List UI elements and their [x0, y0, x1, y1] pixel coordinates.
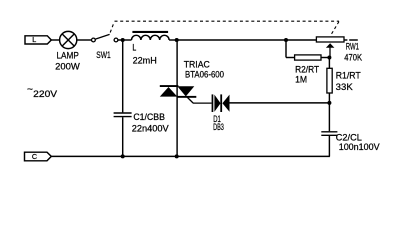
- wire R2 right to junction: [321, 57, 329, 59]
- label C2/CL 100n100V: [336, 133, 381, 153]
- capacitor C2/CL 100n100V: [321, 132, 337, 136]
- resistor R2/RT 1M: [295, 55, 321, 60]
- svg-text:LAMP: LAMP: [57, 51, 79, 62]
- label TRIAC BTA06-600: [184, 59, 224, 80]
- switch SW1: [92, 34, 118, 41]
- wire R2 branch vertical: [285, 40, 287, 58]
- label D1 DB3: [213, 114, 224, 133]
- junction node diac R1 C2: [327, 101, 331, 105]
- svg-text:1M: 1M: [295, 74, 307, 85]
- svg-text:200W: 200W: [55, 62, 80, 73]
- svg-text:BTA06-600: BTA06-600: [185, 70, 224, 81]
- wire pot right stub: [344, 39, 358, 41]
- terminal flag C: [25, 152, 52, 161]
- svg-text:C1/CBB: C1/CBB: [133, 112, 165, 123]
- potentiometer RW1 470K: [316, 37, 344, 58]
- wire junction to C2: [328, 103, 330, 131]
- wire C1 top: [122, 40, 124, 112]
- label LAMP 200W: [55, 51, 80, 73]
- svg-text:33K: 33K: [336, 82, 354, 93]
- wire R1 bottom to junction: [328, 93, 330, 103]
- svg-text:L: L: [132, 42, 136, 53]
- junction node R2 tap: [284, 38, 288, 42]
- bottom wire: [51, 155, 330, 157]
- svg-text:DB3: DB3: [213, 122, 224, 133]
- wire diac to junction: [229, 102, 329, 104]
- lamp 200W: [60, 31, 77, 48]
- svg-text:RW1: RW1: [346, 42, 359, 53]
- svg-text:470K: 470K: [344, 53, 362, 64]
- svg-text:R1/RT: R1/RT: [336, 70, 361, 81]
- wire wiper junction to R1: [328, 58, 330, 69]
- svg-text:L: L: [32, 35, 36, 44]
- junction node C1 bottom: [121, 154, 125, 158]
- svg-text:C: C: [32, 152, 37, 161]
- wire top main to pot: [177, 39, 316, 41]
- junction node triac bottom: [175, 154, 179, 158]
- junction node after switch: [121, 38, 125, 42]
- label RW1 470K: [344, 42, 362, 64]
- terminal flag L: [25, 35, 51, 44]
- svg-text:22n400V: 22n400V: [132, 124, 170, 135]
- wire C1 bottom: [122, 117, 124, 156]
- wire C2 bottom: [328, 136, 330, 157]
- wire inductor to triac top: [169, 39, 177, 41]
- wire switch to inductor: [118, 39, 132, 41]
- wire triac vertical: [176, 40, 178, 156]
- label C1/CBB 22n400V: [132, 112, 170, 135]
- dashed linkage SW1 to RW1: [110, 21, 339, 35]
- capacitor C1/CBB 22n400V: [114, 113, 132, 117]
- wire to R2 left: [286, 57, 295, 59]
- svg-text:SW1: SW1: [96, 50, 110, 61]
- resistor R1/RT 33K: [327, 68, 332, 93]
- wire lamp to switch: [77, 39, 92, 41]
- label R2/RT 1M: [295, 65, 319, 86]
- svg-text:100n100V: 100n100V: [339, 142, 381, 153]
- gate wire triac to diac: [187, 97, 212, 103]
- junction node triac top: [175, 38, 179, 42]
- label R1/RT 33K: [336, 70, 361, 93]
- svg-text:22mH: 22mH: [133, 56, 157, 67]
- diac D1 DB3: [212, 94, 230, 112]
- label L 22mH: [132, 42, 157, 66]
- junction node R2 R1 wiper: [327, 56, 331, 60]
- svg-text:220V: 220V: [33, 89, 58, 100]
- inductor L 22mH: [132, 31, 170, 40]
- wire flag L to lamp: [51, 39, 60, 41]
- triac U1 BTA06-600: [160, 85, 197, 98]
